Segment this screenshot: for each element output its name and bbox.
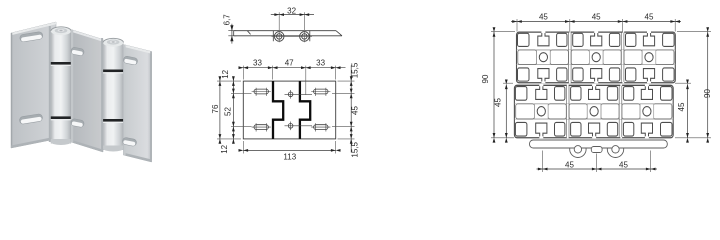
dimension row 33/47/33 (top of front view) [239,59,346,95]
countersunk hole lower [285,122,313,131]
svg-text:90: 90 [481,74,490,83]
svg-text:6,7: 6,7 [223,14,232,26]
middle tab between knuckles [591,147,602,153]
slot upper-right [311,88,330,96]
middle leaf slot lower [70,118,84,127]
slot upper-left [252,88,271,96]
middle leaf shading overlay [71,30,103,153]
svg-text:33: 33 [253,59,262,68]
leaf divider left (thick) [273,81,283,139]
barrel 1 [51,27,71,145]
left leaf edge lines [11,22,56,35]
dimension 45 (right, row2) [675,80,691,143]
slot lower-left [252,123,271,131]
svg-text:12: 12 [221,69,230,78]
svg-text:45: 45 [539,13,548,22]
front view outline [243,81,335,139]
svg-text:15,5: 15,5 [351,141,360,157]
middle leaf slot upper [70,47,84,56]
dimension 90 (left) [481,27,515,142]
knuckle 1 outer [570,141,586,157]
bar chamfer mark [247,31,250,35]
dimension column right 15,5/45/15,5 [332,62,360,157]
right leaf edge lines [123,45,151,54]
barrel circle 2 (top view) [300,32,310,42]
svg-text:45: 45 [645,13,654,22]
barrel 2 shadow on plate [101,38,103,150]
right leaf slot upper [123,56,138,66]
svg-text:45: 45 [592,13,601,22]
right leaf plate [123,45,151,163]
dimension 45 (left, row2) [494,80,513,143]
right leaf slot lower [122,137,137,147]
barrel circle 1 (top view) [274,32,309,42]
barrel 1 shadow on plate [49,26,51,142]
dimension 113 (bottom) [239,141,341,162]
hinge leaf bar [530,140,668,148]
profile row 2 [514,84,673,138]
svg-text:76: 76 [211,104,220,113]
left leaf plate [11,22,56,148]
profile row 1 [517,31,676,83]
svg-text:33: 33 [316,59,325,68]
middle leaf edge lines [71,30,103,42]
dimension 6,7 (left of top view) [223,14,237,44]
hinge side view (bottom of right drawing) [530,140,668,158]
dimension row 45/45/45 (top) [511,13,681,33]
dimension 90 (right) [675,27,712,142]
leaf divider right (thick) [300,81,310,139]
svg-text:90: 90 [703,89,712,98]
svg-text:45: 45 [351,106,360,115]
svg-text:32: 32 [287,7,296,16]
svg-text:45: 45 [619,161,628,170]
countersunk hole upper [285,90,313,99]
svg-text:45: 45 [565,161,574,170]
svg-text:113: 113 [283,153,296,162]
knuckle pin holes [574,146,581,153]
svg-text:47: 47 [285,59,294,68]
svg-text:12: 12 [220,144,229,153]
barrel 2 [103,38,123,151]
centerlines of barrels [272,12,313,42]
svg-text:15,5: 15,5 [351,62,360,78]
svg-text:45: 45 [677,102,686,111]
dimension column left 12/52/12 and 76 [211,69,251,153]
knuckle housing sides [273,31,310,42]
left leaf slot lower [19,114,43,125]
knuckle 2 outer [607,141,623,157]
svg-text:45: 45 [494,98,503,107]
svg-text:52: 52 [223,107,232,116]
dimension 45/45 (bottom, hinge fixing) [537,151,658,173]
left leaf slot upper [19,31,43,42]
middle leaf plate [71,30,103,153]
slot lower-right [311,123,330,131]
top view bar [234,31,342,36]
dimension 32 (top) [271,7,314,16]
